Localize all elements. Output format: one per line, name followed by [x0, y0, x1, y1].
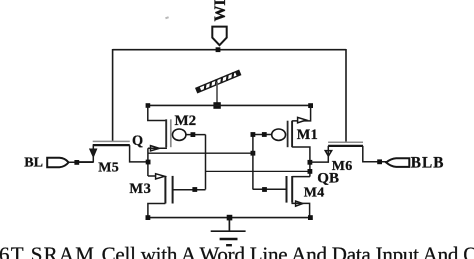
wire M5 source lead — [77, 145, 93, 162]
arrow M1 source — [298, 117, 307, 122]
transistor M3 gate bar — [172, 176, 174, 204]
wire M2 gate to QB vertical — [186, 134, 206, 136]
wire M4 drain — [292, 176, 310, 178]
transistor M1 channel — [291, 121, 293, 148]
wire M2 source from VDD — [148, 105, 166, 120]
wire ground rail — [148, 217, 311, 219]
junction WL-port — [216, 47, 221, 52]
wire coupling top (Q to right gates) — [148, 152, 253, 154]
wire VDD rail — [148, 104, 311, 106]
wire QB feedback vertical (left) — [205, 135, 207, 190]
svg-text:M6: M6 — [332, 159, 353, 174]
junction M3 gate — [192, 187, 197, 192]
arrow M6 drain — [325, 151, 331, 156]
junction ground mid — [227, 215, 233, 221]
wire M1 source from VDD — [292, 105, 311, 121]
speck artifact — [165, 16, 169, 19]
transistor M5 channel — [93, 144, 130, 146]
wire M5 drain lead — [130, 145, 149, 162]
wire M1 gate wire — [253, 134, 272, 136]
junction VDD stub — [213, 102, 220, 109]
wire BL to M5 — [69, 161, 93, 163]
wire VDD stub — [216, 82, 218, 104]
wire WL rail — [113, 49, 346, 51]
wire M1 drain — [292, 147, 310, 177]
ground symbol — [211, 218, 246, 246]
wire M3 drain to Q — [148, 175, 156, 177]
svg-text:M4: M4 — [304, 185, 325, 200]
wire M4 source lead — [292, 203, 309, 218]
junction M1 gate b — [262, 132, 267, 137]
junction Q / M5 drain — [146, 160, 151, 165]
power VDD bar (skewed) — [195, 70, 241, 93]
junction QB lower — [308, 169, 313, 174]
node WL label — [212, 0, 229, 22]
junction ground right — [308, 215, 313, 220]
transistor M5 gate plate — [93, 140, 130, 142]
svg-text:6T SRAM Cell with A Word Line: 6T SRAM Cell with A Word Line And Data I… — [0, 243, 474, 259]
arrow M5 source — [90, 149, 96, 156]
junction VDD left — [146, 103, 151, 108]
transistor M4 channel — [291, 176, 293, 203]
wire coupling bottom (QB) — [206, 170, 310, 172]
wire M3 source lead — [148, 204, 166, 218]
junction BLB — [377, 159, 382, 164]
port WL (pentagon input) — [212, 27, 226, 46]
transistor M6 gate plate — [328, 141, 363, 143]
transistor M1 gate bar — [287, 121, 289, 148]
junction M1 gate a — [251, 132, 256, 137]
svg-text:M5: M5 — [98, 161, 119, 176]
junction BL — [74, 160, 79, 165]
wire M2 drain to Q — [148, 147, 166, 148]
transistor M6 channel — [328, 145, 363, 147]
wire Q feedback vertical (right) — [252, 135, 254, 190]
transistor M2 gate bubble — [173, 129, 186, 140]
svg-text:M1: M1 — [297, 127, 318, 143]
transistor M3 channel — [164, 176, 166, 204]
wire M6 drain lead — [310, 146, 328, 162]
transistor M2 (PMOS) channel — [165, 119, 167, 147]
transistor M2 gate bar — [170, 119, 172, 147]
wire M4 gate lead — [253, 188, 287, 190]
junction coupling top right — [251, 151, 256, 156]
junction M2 gate wire — [191, 132, 196, 137]
svg-text:BLB: BLB — [411, 155, 445, 172]
port BL — [47, 158, 68, 167]
port BLB — [386, 158, 409, 167]
svg-text:Q: Q — [132, 133, 143, 149]
junction QB upper — [308, 160, 313, 165]
wire WL left drop to M5 gate — [112, 49, 114, 141]
wire M3 gate lead — [173, 189, 206, 191]
arrow M2 drain — [151, 146, 160, 151]
transistor M4 gate bar — [286, 176, 288, 203]
wire M6 source lead — [363, 146, 388, 162]
svg-text:BL: BL — [24, 156, 43, 171]
junction ground left — [146, 215, 151, 220]
arrow M4 source — [296, 201, 303, 206]
junction VDD right — [308, 103, 313, 108]
svg-text:M3: M3 — [129, 181, 151, 197]
wire WL right drop to M6 gate — [345, 49, 347, 142]
wire node Q vertical — [147, 148, 149, 176]
svg-text:WL: WL — [212, 0, 229, 22]
svg-text:M2: M2 — [175, 113, 197, 129]
arrow M3 drain — [156, 174, 165, 179]
transistor M1 gate bubble — [272, 129, 286, 140]
junction M4 gate — [262, 187, 267, 192]
